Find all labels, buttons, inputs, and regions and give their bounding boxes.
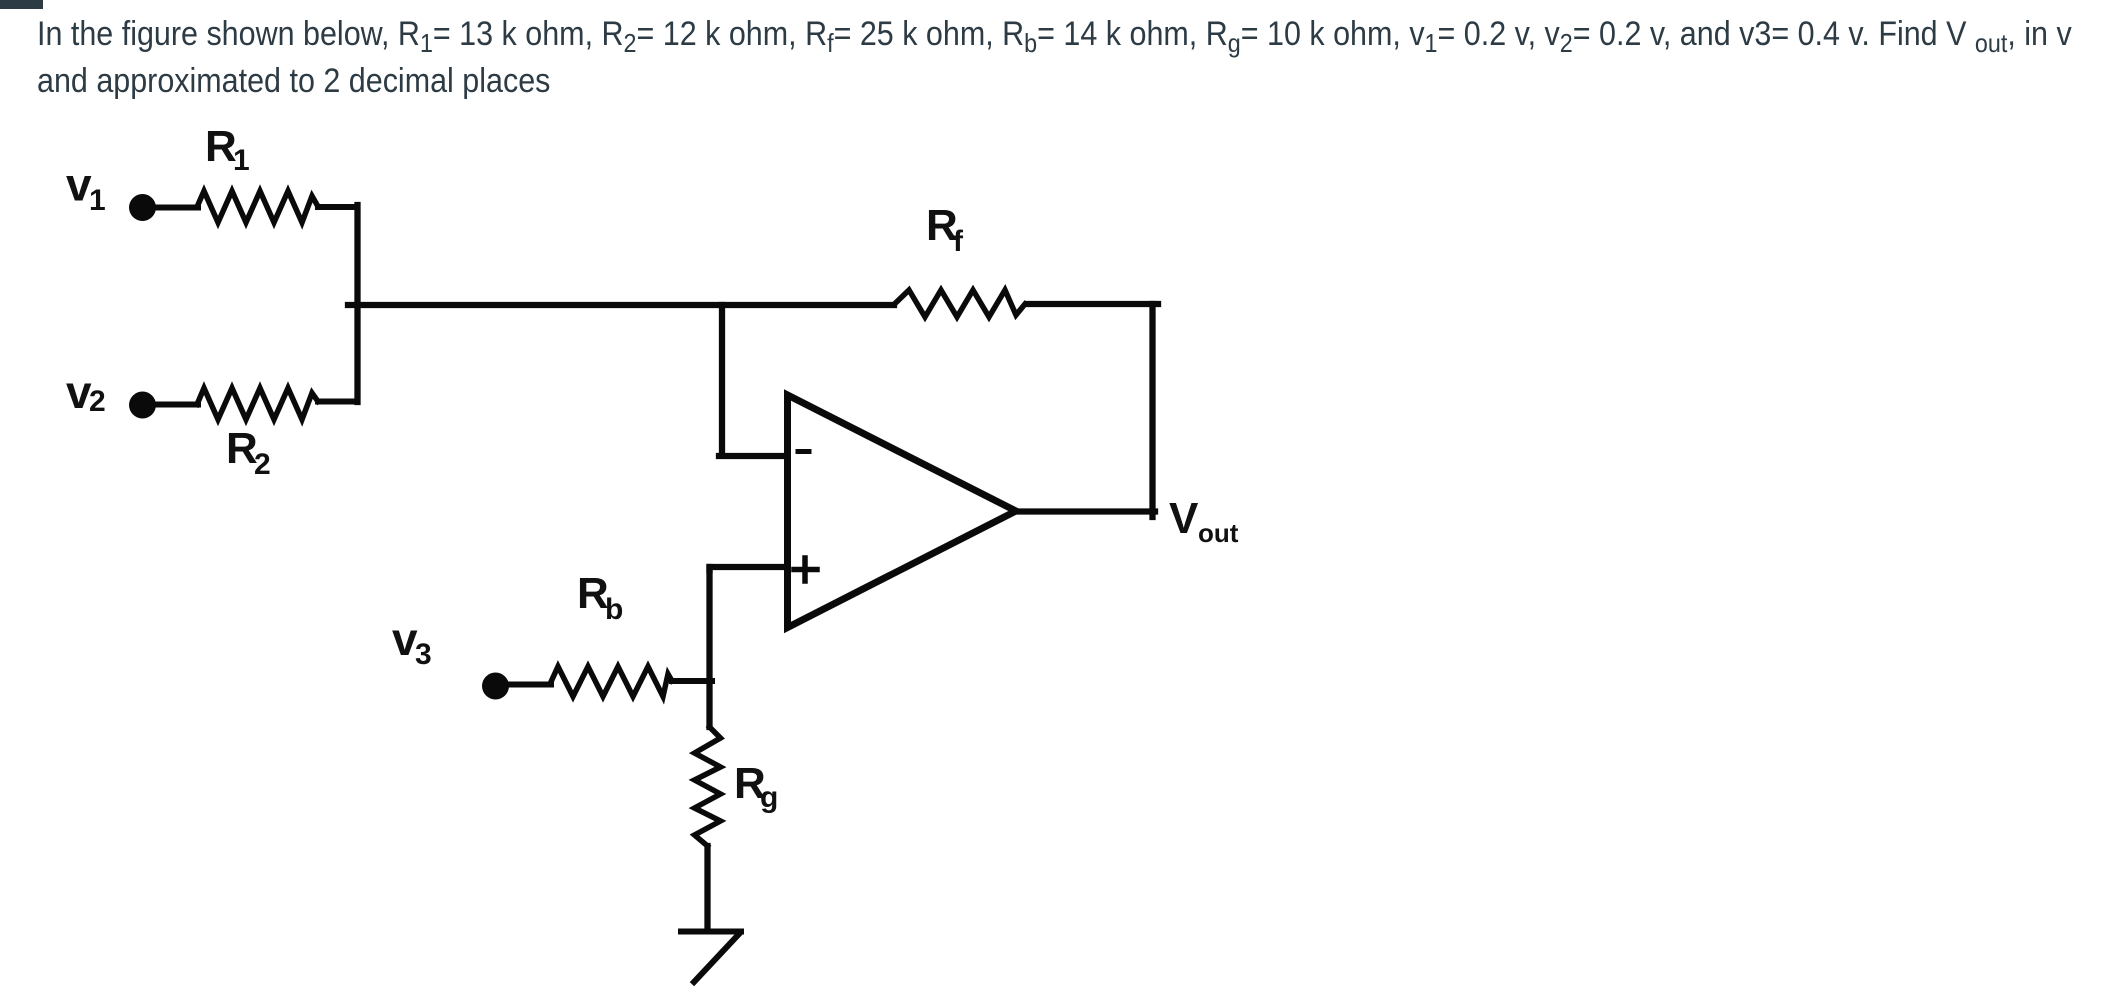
op-amp minus pin mark	[798, 449, 809, 454]
label R2	[226, 424, 271, 481]
node V1 terminal dot	[129, 194, 156, 221]
node V2 terminal dot	[129, 392, 156, 419]
label Rf	[926, 201, 964, 258]
svg-text:1: 1	[89, 184, 106, 217]
resistor R2	[197, 388, 318, 420]
wire op-amp output	[1016, 508, 1155, 514]
label v1	[66, 159, 106, 218]
label Vout	[1169, 494, 1239, 548]
wire non-inverting input	[710, 567, 788, 570]
svg-text:2: 2	[89, 385, 106, 418]
resistor Rb	[550, 667, 672, 697]
wire plus branch vertical	[706, 567, 712, 727]
wire Rf to output corner	[1028, 301, 1158, 307]
wire drop to inverting input	[719, 305, 787, 456]
op-amp U1	[788, 395, 1017, 628]
wire V2 to R2	[155, 402, 198, 408]
label v2	[66, 366, 106, 418]
svg-text:b: b	[605, 593, 623, 626]
wire Rb tail to plus branch	[672, 678, 712, 684]
svg-text:V: V	[1169, 494, 1199, 543]
svg-text:g: g	[760, 781, 778, 814]
resistor R1	[197, 191, 318, 223]
wire summing junction vertical	[354, 205, 360, 402]
wire R2 tail	[318, 399, 358, 405]
node V3 terminal dot	[482, 673, 509, 700]
wire Rg to ground	[704, 846, 710, 929]
wire V3 to Rb	[508, 682, 551, 688]
svg-text:2: 2	[254, 448, 271, 481]
svg-text:R: R	[577, 569, 609, 618]
label R1	[205, 122, 250, 177]
svg-text:3: 3	[415, 638, 432, 671]
svg-text:f: f	[953, 225, 964, 258]
resistor Rg	[695, 727, 721, 846]
wire feedback vertical	[1149, 304, 1155, 517]
label Rg	[734, 759, 778, 814]
ground	[681, 932, 741, 983]
label Rb	[577, 569, 623, 626]
question text	[37, 11, 2072, 105]
wire R1 tail	[318, 204, 358, 210]
resistor Rf	[894, 290, 1025, 317]
svg-text:R: R	[226, 424, 258, 473]
wire V1 to R1	[155, 205, 198, 211]
svg-text:1: 1	[233, 144, 250, 177]
top-left dark bar	[0, 0, 43, 9]
label v3	[392, 613, 432, 671]
svg-text:out: out	[1198, 518, 1239, 548]
op-amp plus pin mark	[794, 558, 817, 581]
wire main node horizontal to Rf	[348, 302, 894, 308]
svg-text:R: R	[205, 122, 237, 171]
